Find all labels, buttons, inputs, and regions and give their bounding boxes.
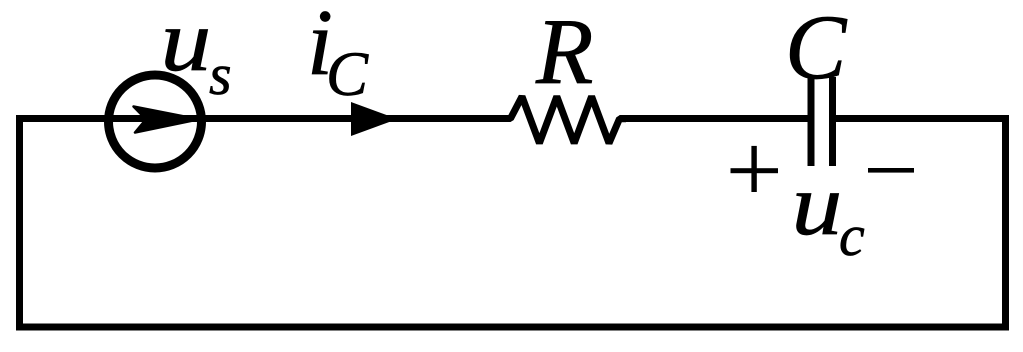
capacitor right plate [829,77,836,166]
wire segment between resistor and capacitor [620,115,808,122]
svg-text:C: C [326,39,369,109]
svg-text:u: u [792,155,843,253]
voltage source circle [109,75,202,168]
svg-text:c: c [839,203,865,268]
svg-text:R: R [535,0,593,104]
svg-text:u: u [161,0,212,89]
voltage source dart arrow [134,107,200,133]
wire outer loop (left, bottom, right sides and top segments) [20,119,1006,328]
svg-text:s: s [209,42,232,107]
polarity minus sign [868,168,914,173]
svg-text:C: C [785,0,848,98]
capacitor left plate [808,78,815,167]
polarity plus sign [731,146,779,192]
current direction arrowhead iC [351,102,398,136]
resistor R zigzag [504,97,626,144]
